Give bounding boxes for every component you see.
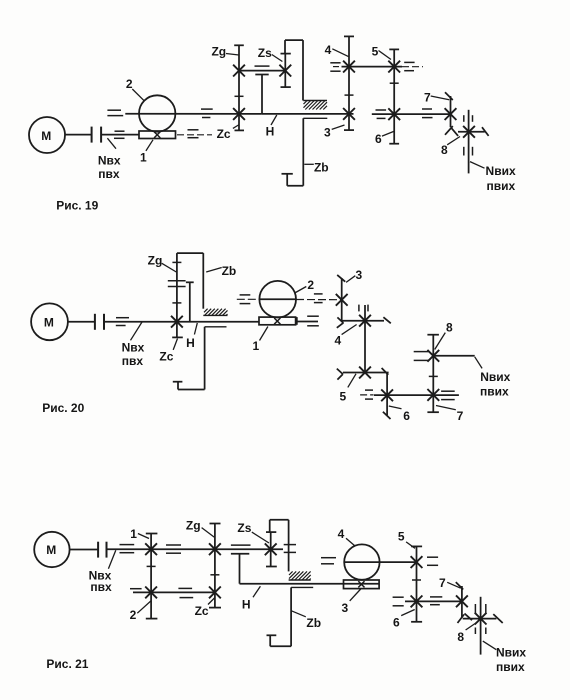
svg-text:1: 1 xyxy=(140,151,147,165)
svg-text:7: 7 xyxy=(457,409,464,423)
bearing marks input shaft (fig.20) xyxy=(116,318,129,326)
housing lower edge (fig.20) xyxy=(205,326,227,328)
bearing marks input shaft (fig.19) xyxy=(114,131,125,138)
bearing marks input shaft (fig.21) xyxy=(120,545,297,554)
ring gear Zb lower rim (fig.20) xyxy=(173,327,205,390)
label 5 (fig.21) xyxy=(398,530,415,549)
svg-text:Zs: Zs xyxy=(258,46,272,60)
central gears Zg/Zc line (fig.19) xyxy=(233,45,245,130)
svg-text:Zc: Zc xyxy=(195,604,209,618)
svg-text:2: 2 xyxy=(307,278,314,292)
bevel gear 3 (fig.20) xyxy=(336,275,348,321)
shaft gear4 to gear5 (fig.21) xyxy=(380,561,417,563)
svg-text:3: 3 xyxy=(356,268,363,282)
svg-text:H: H xyxy=(266,125,275,139)
motor shaft segment (fig.19) xyxy=(65,134,91,136)
svg-text:Nвих: Nвих xyxy=(496,645,526,659)
svg-text:Рис. 21: Рис. 21 xyxy=(46,657,88,671)
caption Рис. 21 xyxy=(46,657,88,671)
svg-text:4: 4 xyxy=(338,527,345,541)
svg-text:6: 6 xyxy=(375,132,382,146)
vertical shaft 4-5 (fig.20) xyxy=(359,305,368,373)
bevel gear 6 (fig.20) xyxy=(381,373,393,419)
label 3 (fig.21) xyxy=(341,589,360,615)
svg-text:Nвх: Nвх xyxy=(98,154,121,168)
svg-text:6: 6 xyxy=(393,616,400,630)
label Nвх/пвх (fig.20) xyxy=(122,322,145,368)
gear 2 wheel (fig.19) xyxy=(139,95,175,131)
svg-text:7: 7 xyxy=(424,91,431,105)
fixed housing hatch (fig.21) xyxy=(289,571,311,580)
bevel mesh 7-8 (fig.21) xyxy=(458,614,473,624)
label Zg (fig.21) xyxy=(186,519,214,537)
input shaft (fig.20) xyxy=(104,321,259,323)
fixed housing hatch (fig.20) xyxy=(203,309,227,316)
svg-text:Zg: Zg xyxy=(186,519,201,533)
label Nвих/пвих (fig.20) xyxy=(475,357,511,399)
label 7 (fig.19) xyxy=(424,91,449,105)
svg-text:М: М xyxy=(44,315,54,329)
central gears Zg/Zc line (fig.20) xyxy=(168,253,186,337)
housing lower edge (fig.21) xyxy=(291,586,313,588)
bevel gear 7 (fig.19) xyxy=(445,92,457,135)
gear 1 sliding block (fig.19) xyxy=(139,131,176,139)
label 8 (fig.19) xyxy=(441,137,460,157)
svg-text:3: 3 xyxy=(324,126,331,140)
ring gear Zb upper rim (fig.20) xyxy=(177,253,203,309)
label 5 (fig.20) xyxy=(339,374,356,404)
motor shaft segment (fig.20) xyxy=(68,321,95,323)
gear 3 sliding block (fig.21) xyxy=(344,580,380,589)
svg-text:пвх: пвх xyxy=(90,580,112,594)
svg-text:H: H xyxy=(242,597,251,611)
gear pair 3-4 line (fig.19) xyxy=(343,36,355,130)
svg-text:5: 5 xyxy=(372,44,379,58)
svg-text:Zb: Zb xyxy=(306,616,321,630)
axis marks left of gear 4 (fig.21) xyxy=(321,558,336,564)
label 4 (fig.19) xyxy=(325,43,349,57)
countershaft 4-5 (fig.19) xyxy=(330,62,423,71)
svg-text:М: М xyxy=(46,543,56,557)
label 4 (fig.20) xyxy=(335,325,357,348)
svg-text:пвих: пвих xyxy=(496,660,525,674)
label Nвих/пвих (fig.21) xyxy=(483,641,527,674)
bearing marks right of gear 5 (fig.21) xyxy=(427,557,438,565)
svg-text:1: 1 xyxy=(252,339,259,353)
svg-text:4: 4 xyxy=(335,334,342,348)
countershaft 6-7 (fig.21) xyxy=(393,597,462,606)
output axis segment with bearings (fig.19) xyxy=(372,109,451,118)
svg-text:Zc: Zc xyxy=(159,350,173,364)
central gears Zg/Zc line (fig.21) xyxy=(209,524,221,608)
bevel gear 8 (fig.19) xyxy=(451,126,489,138)
label Zs (fig.19) xyxy=(258,46,283,61)
svg-text:Nвих: Nвих xyxy=(480,370,510,384)
figure Рис. 20 — kinematic scheme 2 xyxy=(0,0,1,1)
svg-text:М: М xyxy=(41,129,51,143)
svg-text:2: 2 xyxy=(130,608,137,622)
label 1 (fig.21) xyxy=(130,527,149,541)
label 4 (fig.21) xyxy=(338,527,355,545)
svg-text:Zg: Zg xyxy=(211,44,226,58)
coupling (fig.20) xyxy=(95,314,104,330)
output shaft Nвих (fig.20) xyxy=(414,352,475,361)
label 1 (fig.19) xyxy=(140,140,153,165)
svg-text:пвх: пвх xyxy=(122,354,144,368)
main output axis (fig.19) xyxy=(262,113,354,115)
coupling (fig.19) xyxy=(92,127,102,143)
label 3 (fig.19) xyxy=(324,125,344,140)
second shaft (fig.21) xyxy=(130,588,215,597)
bevel gear 7 (fig.21) xyxy=(456,582,468,618)
label Zb (fig.20) xyxy=(206,264,236,278)
svg-text:Zs: Zs xyxy=(237,521,251,535)
label 6 (fig.19) xyxy=(375,131,394,146)
input shaft (fig.21) xyxy=(107,548,284,550)
gear 2 wheel (fig.20) xyxy=(259,281,296,318)
svg-text:Nвих: Nвих xyxy=(486,164,516,178)
output shaft Nвих (fig.19) xyxy=(464,110,473,174)
label 8 (fig.20) xyxy=(435,321,453,350)
mesh shaft Zg-Zs (fig.19) xyxy=(239,66,285,71)
satellite Zs line (fig.21) xyxy=(265,532,277,566)
svg-text:8: 8 xyxy=(441,143,448,157)
label Nвх/пвх (fig.21) xyxy=(89,550,116,594)
carrier H (fig.21) xyxy=(231,554,379,584)
carrier H (fig.19) xyxy=(255,75,268,114)
svg-text:8: 8 xyxy=(446,321,453,335)
ring gear Zb upper rim (fig.21) xyxy=(270,520,289,572)
svg-text:Рис. 19: Рис. 19 xyxy=(56,199,98,213)
svg-text:Zb: Zb xyxy=(222,264,237,278)
label H (fig.20) xyxy=(186,323,197,350)
bearing marks right of gear 2 (fig.19) xyxy=(201,109,213,117)
svg-text:Nвх: Nвх xyxy=(122,340,145,354)
gear pair 1-2 line (fig.21) xyxy=(145,534,157,619)
label 2 (fig.20) xyxy=(295,278,315,293)
svg-text:8: 8 xyxy=(457,630,464,644)
label 6 (fig.21) xyxy=(393,610,415,630)
motor M (fig.19) xyxy=(29,117,65,153)
label Zg (fig.20) xyxy=(148,253,177,272)
svg-text:6: 6 xyxy=(403,409,410,423)
figure Рис. 19 — kinematic scheme 1 xyxy=(0,0,1,1)
svg-text:Zg: Zg xyxy=(148,253,163,267)
label Zc (fig.20) xyxy=(159,339,177,364)
coupling (fig.21) xyxy=(98,542,106,558)
satellite Zs line (fig.19) xyxy=(279,54,291,88)
label 2 (fig.19) xyxy=(126,77,144,101)
label 3 (fig.20) xyxy=(346,268,362,283)
label 7 (fig.21) xyxy=(439,576,461,590)
bevel mesh 3-4 (fig.20) xyxy=(337,317,344,327)
fixed housing hatch (fig.19) xyxy=(303,101,327,110)
svg-text:7: 7 xyxy=(439,576,446,590)
gear pair 5-6 line (fig.21) xyxy=(411,546,423,621)
motor M (fig.20) xyxy=(31,303,68,340)
gear pair 7-8 line (fig.20) xyxy=(427,335,439,413)
label 5 (fig.19) xyxy=(372,44,391,59)
output shaft Nвих (fig.21) xyxy=(475,597,485,655)
gear pair 5-6 line (fig.19) xyxy=(388,49,400,143)
svg-text:пвих: пвих xyxy=(486,179,515,193)
svg-text:Zc: Zc xyxy=(217,127,231,141)
motor M (fig.21) xyxy=(34,532,69,567)
bevel gear 5 (fig.20) xyxy=(337,367,389,380)
label Nвх/пвх (fig.19) xyxy=(98,138,121,181)
label Zb (fig.21) xyxy=(291,611,321,630)
svg-text:5: 5 xyxy=(339,390,346,404)
input shaft Nвх (fig.19) xyxy=(101,134,139,136)
housing lower edge (fig.19) xyxy=(303,117,327,119)
label Zb (fig.19) xyxy=(304,161,328,175)
svg-text:пвих: пвих xyxy=(480,384,509,398)
svg-text:Zb: Zb xyxy=(314,161,329,175)
svg-text:Рис. 20: Рис. 20 xyxy=(42,401,84,415)
label Zg (fig.19) xyxy=(211,44,238,58)
bevel gear 8 (fig.21) xyxy=(463,613,503,625)
label 6 (fig.20) xyxy=(389,406,410,423)
label H (fig.21) xyxy=(242,586,261,611)
svg-text:H: H xyxy=(186,336,195,350)
label Nвих/пвих (fig.19) xyxy=(470,162,516,194)
motor shaft segment (fig.21) xyxy=(70,549,98,551)
svg-text:2: 2 xyxy=(126,77,133,91)
label 1 (fig.20) xyxy=(252,327,267,354)
svg-text:пвх: пвх xyxy=(98,167,120,181)
ring gear Zb lower rim (fig.19) xyxy=(282,118,304,186)
caption Рис. 19 xyxy=(56,199,98,213)
bevel gear 4 (fig.20) xyxy=(342,315,391,327)
svg-text:3: 3 xyxy=(341,601,348,615)
gear 4 wheel (fig.21) xyxy=(344,544,380,579)
label H (fig.19) xyxy=(266,115,277,139)
carrier H (fig.20) xyxy=(186,282,194,321)
label Zc (fig.21) xyxy=(195,598,215,619)
svg-text:4: 4 xyxy=(325,43,332,57)
gear 1 sliding block (fig.20) xyxy=(259,316,319,326)
label 8 (fig.21) xyxy=(457,622,478,645)
caption Рис. 20 xyxy=(42,401,84,415)
bevel mesh 5-6 (fig.20) xyxy=(382,368,389,375)
svg-text:1: 1 xyxy=(130,527,137,541)
upper axis centerline (fig.20) xyxy=(237,294,342,304)
ring gear Zb upper rim (fig.19) xyxy=(285,40,303,100)
svg-text:5: 5 xyxy=(398,530,405,544)
label Zs (fig.21) xyxy=(237,521,269,543)
figure Рис. 21 — kinematic scheme 3 xyxy=(0,0,1,1)
label 7 (fig.20) xyxy=(436,406,464,424)
ring gear Zb lower rim (fig.21) xyxy=(267,587,292,646)
upper main axis (fig.19) xyxy=(107,110,261,115)
label Zc (fig.19) xyxy=(217,125,240,142)
input shaft centerline extension (fig.19) xyxy=(177,130,212,138)
countershaft 6-7 (fig.20) xyxy=(360,390,459,400)
label 2 (fig.21) xyxy=(130,601,151,622)
